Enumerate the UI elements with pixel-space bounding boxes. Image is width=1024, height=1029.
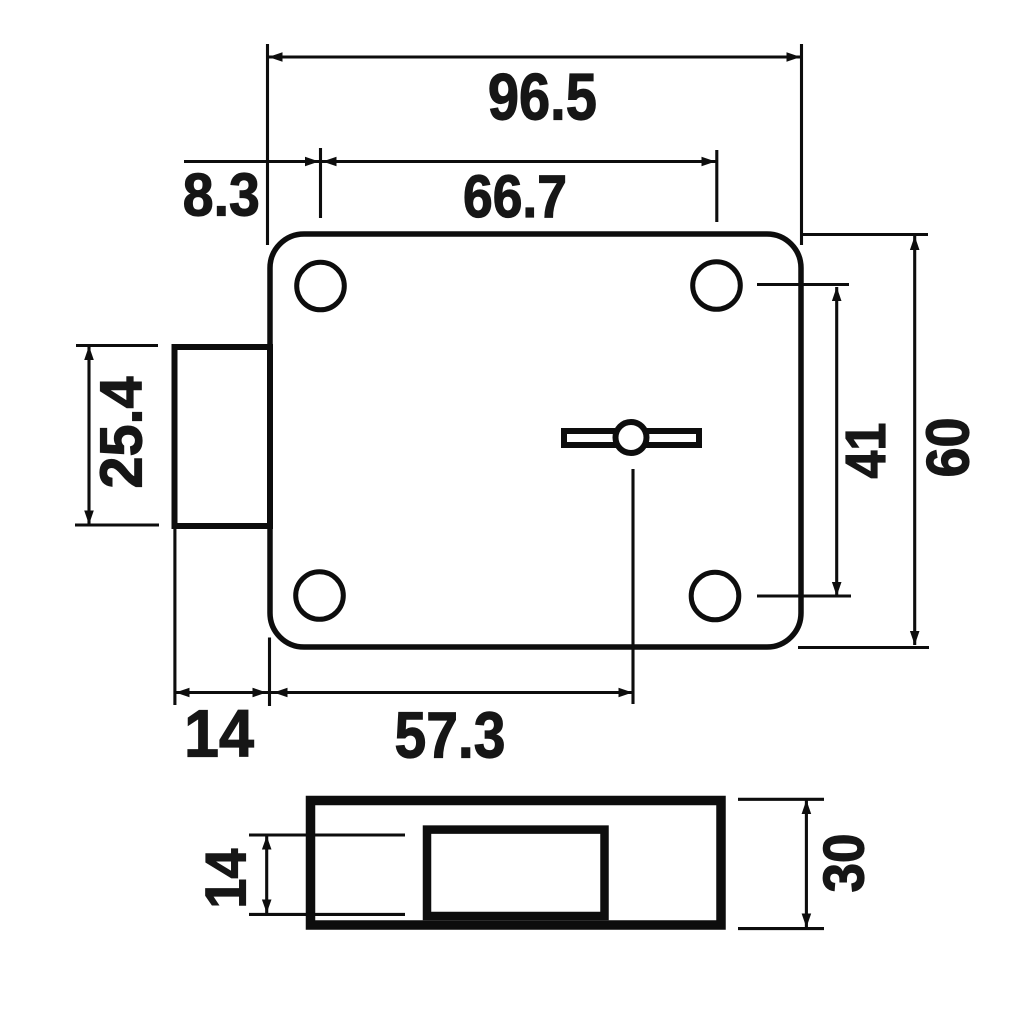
extension line hole-right-center <box>715 150 718 222</box>
extension line body-left (top) <box>266 44 269 245</box>
extension line body-right (top) <box>800 44 803 245</box>
side view inner slot rectangle <box>427 830 605 916</box>
lock body outline (top view) <box>270 234 801 647</box>
label 14 <box>184 698 254 772</box>
label 60 (rotated) <box>914 418 982 478</box>
label 8.3 <box>183 161 260 228</box>
mounting hole top-left <box>297 262 345 310</box>
dimension line 14 and 57.3 <box>175 688 633 698</box>
dimension line 14 (side view) <box>262 836 272 913</box>
extension line housing-bottom (30) <box>738 927 824 930</box>
mounting hole top-right <box>693 262 741 310</box>
label 96.5 <box>488 61 597 134</box>
extension line keyhole-center (bottom) <box>631 469 634 704</box>
extension line body-left (bottom) <box>268 638 271 707</box>
label 25.4 (rotated) <box>89 376 155 488</box>
label 66.7 <box>463 163 567 230</box>
svg-text:66.7: 66.7 <box>463 163 567 230</box>
label 14 side view (rotated) <box>195 849 259 909</box>
svg-text:14: 14 <box>195 849 259 909</box>
extension line tab-left (bottom) <box>173 529 176 705</box>
svg-text:8.3: 8.3 <box>183 161 260 228</box>
extension line hole-left-center <box>319 148 322 218</box>
mounting hole bottom-right <box>691 572 739 620</box>
extension line hole-right-bottom (41) <box>757 594 851 597</box>
dimension line 41 <box>832 287 842 596</box>
extension line tab-top (25.4) <box>76 344 158 347</box>
svg-text:30: 30 <box>813 834 877 893</box>
extension line slot-top (14 side) <box>249 833 405 836</box>
keyhole circle <box>616 422 647 453</box>
svg-text:25.4: 25.4 <box>89 376 155 488</box>
extension line hole-right-top (41) <box>757 283 849 286</box>
svg-text:41: 41 <box>834 423 898 479</box>
svg-text:60: 60 <box>914 418 982 478</box>
svg-text:14: 14 <box>184 698 254 772</box>
extension line body-bottom-right (60) <box>798 646 929 649</box>
latch bolt tab (left side) <box>175 347 271 526</box>
label 57.3 <box>395 699 506 772</box>
dimension line 30 <box>802 800 812 928</box>
side view outer housing rectangle <box>311 801 722 926</box>
dimension line 8.3 and 66.7 <box>184 157 716 167</box>
extension line tab-bottom (25.4) <box>75 523 159 526</box>
keyhole slot bar <box>564 431 699 445</box>
dimension line 96.5 <box>268 52 801 62</box>
mounting hole bottom-left <box>296 572 344 620</box>
label 30 (rotated) <box>813 834 877 893</box>
svg-text:57.3: 57.3 <box>395 699 506 772</box>
svg-text:96.5: 96.5 <box>488 61 597 134</box>
extension line body-top-right (60) <box>800 233 928 236</box>
extension line slot-bottom (14 side) <box>249 913 405 916</box>
label 41 (rotated) <box>834 423 898 479</box>
extension line housing-top (30) <box>738 798 824 801</box>
dimension line 60 <box>910 236 920 645</box>
dimension line 25.4 <box>84 346 94 525</box>
